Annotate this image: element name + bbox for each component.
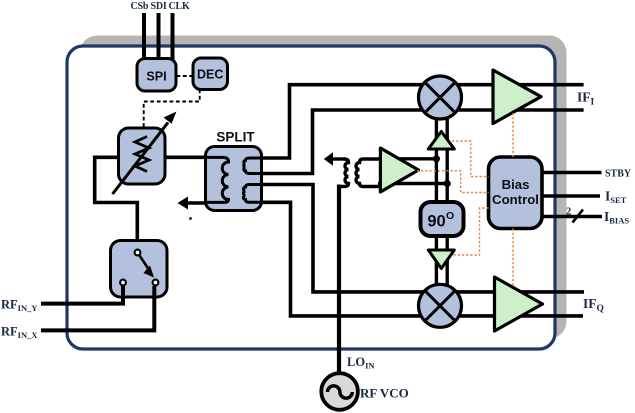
junction node LO+ [433, 155, 440, 162]
svg-text:RF VCO: RF VCO [360, 386, 409, 401]
variable attenuator [113, 112, 177, 195]
LO transformer [324, 152, 381, 190]
dashed link SPI-DEC [177, 75, 194, 77]
wire ISET [542, 194, 600, 198]
wire attenuator to splitter [163, 156, 207, 160]
wire CSb [142, 13, 146, 60]
bias control block [489, 157, 543, 229]
wire switch to attenuator [95, 157, 138, 242]
splitter block [204, 147, 263, 211]
wire splitter to mixer Q bottom (RF Q-) [261, 202, 583, 316]
SPI block [137, 59, 176, 92]
90 degree phase shifter [421, 202, 464, 236]
mixer Q [419, 284, 462, 327]
primary winding [204, 157, 229, 202]
wire IBIAS [542, 215, 602, 219]
svg-text:DEC: DEC [197, 68, 223, 82]
frame shadow [80, 36, 567, 339]
wire LO_IN drop to VCO [337, 185, 341, 375]
DEC block [193, 58, 228, 90]
junction node LO- [444, 180, 451, 187]
bus slash IBIAS [573, 210, 584, 223]
bias dash to LO amp [417, 171, 489, 193]
LO vertical pair upper [435, 118, 438, 203]
wire RF_IN_X [41, 286, 154, 330]
secondary winding bottom [243, 185, 263, 203]
svg-text:O: O [446, 210, 454, 222]
stray dot [189, 217, 192, 220]
chip outline [67, 46, 555, 349]
svg-text:Bias: Bias [502, 177, 530, 192]
bias dash to IF_Q amp [512, 229, 514, 288]
svg-text:2: 2 [566, 207, 571, 218]
svg-text:CLK: CLK [169, 1, 190, 12]
secondary winding top [244, 158, 263, 174]
wire STBY [542, 171, 602, 175]
mixer I [419, 76, 462, 119]
amplifier IF_I [493, 70, 541, 124]
wire SDI [157, 13, 161, 60]
RF VCO oscillator [321, 373, 358, 410]
bias dash to up buffer [452, 141, 489, 177]
wire LO amp to divider bottom [378, 182, 447, 185]
switch block [111, 241, 168, 298]
wire splitter to mixer I bottom (RF I-) [261, 110, 584, 174]
wire CLK [171, 13, 175, 60]
bias dash to IF_I amp [512, 113, 514, 157]
wire RF_IN_Y [41, 286, 123, 304]
LO buffer up [428, 132, 454, 150]
dashed link DEC-attenuator [144, 90, 200, 129]
svg-text:Control: Control [492, 192, 539, 207]
svg-text:SPLIT: SPLIT [216, 130, 255, 145]
wire LO amp to divider top [378, 157, 436, 160]
splitter input arrow [178, 197, 189, 210]
svg-text:STBY: STBY [605, 169, 632, 180]
svg-text:SDI: SDI [151, 1, 167, 12]
bias dash to down buffer [452, 208, 489, 255]
wire splitter to mixer Q top (RF Q+) [261, 185, 584, 292]
svg-text:SPI: SPI [146, 70, 166, 84]
svg-text:CSb: CSb [131, 1, 149, 12]
LO buffer down [428, 250, 454, 269]
LO amplifier [380, 148, 418, 192]
amplifier IF_Q [495, 277, 543, 331]
svg-text:90: 90 [427, 213, 445, 231]
wire splitter to mixer I top (RF I+) [261, 85, 584, 158]
LO vertical pair lower [435, 233, 438, 286]
